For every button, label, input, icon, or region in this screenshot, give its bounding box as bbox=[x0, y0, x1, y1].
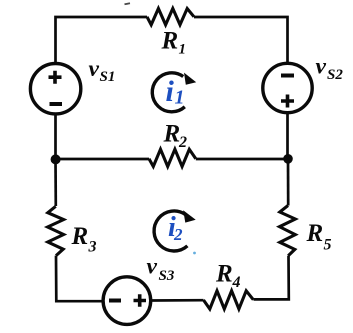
svg-text:4: 4 bbox=[232, 274, 241, 291]
resistor R1 bbox=[147, 9, 194, 25]
svg-text:R: R bbox=[306, 220, 324, 247]
svg-text:v: v bbox=[147, 254, 158, 280]
wire top-left segment bbox=[56, 17, 148, 64]
svg-text:2: 2 bbox=[178, 134, 187, 151]
stray scan mark bbox=[125, 3, 131, 4]
svg-text:R: R bbox=[71, 223, 89, 250]
middle wire left bbox=[56, 158, 150, 161]
svg-text:R: R bbox=[163, 121, 181, 148]
resistor R5 bbox=[280, 206, 296, 256]
node junction right bbox=[283, 154, 293, 164]
node junction left bbox=[51, 154, 61, 164]
svg-text:3: 3 bbox=[88, 239, 97, 256]
resistor R2 bbox=[149, 149, 196, 166]
svg-text:v: v bbox=[316, 54, 327, 80]
wire left bottom bbox=[56, 256, 103, 302]
svg-text:S1: S1 bbox=[100, 69, 116, 85]
blue speck artifact bbox=[193, 252, 196, 255]
wire bottom middle bbox=[151, 299, 204, 302]
svg-text:S2: S2 bbox=[327, 67, 343, 83]
middle wire right bbox=[196, 158, 288, 161]
wire right mid-lower bbox=[287, 159, 290, 206]
svg-text:S3: S3 bbox=[159, 268, 175, 284]
wire right below vS2 bbox=[286, 113, 289, 160]
voltage source vS2 bbox=[263, 63, 312, 112]
svg-text:R: R bbox=[161, 28, 179, 55]
svg-text:2: 2 bbox=[173, 225, 183, 244]
svg-text:v: v bbox=[89, 56, 100, 82]
wire left mid-lower bbox=[54, 159, 57, 206]
svg-text:1: 1 bbox=[175, 86, 185, 108]
wire right bottom bbox=[254, 256, 289, 300]
resistor R3 bbox=[48, 206, 64, 255]
svg-text:1: 1 bbox=[179, 42, 187, 58]
svg-text:R: R bbox=[215, 261, 233, 288]
voltage source vS3 bbox=[103, 277, 151, 325]
voltage source vS1 bbox=[30, 63, 80, 113]
mesh current i2 bbox=[154, 211, 187, 251]
svg-text:5: 5 bbox=[324, 237, 332, 254]
svg-text:i: i bbox=[166, 75, 175, 108]
resistor R4 bbox=[204, 291, 254, 309]
mesh current i1 bbox=[152, 73, 185, 112]
wire left below vS1 bbox=[54, 114, 57, 160]
wire top-right segment bbox=[194, 17, 288, 64]
